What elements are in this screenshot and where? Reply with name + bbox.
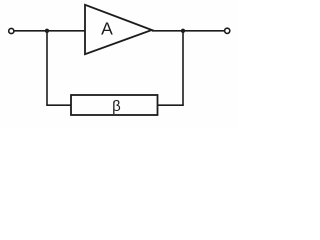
wire left horizontal to beta block — [46, 104, 71, 106]
wire left vertical feedback — [46, 31, 48, 105]
svg-text:A: A — [101, 19, 113, 39]
node junction left — [45, 29, 49, 33]
feedback block beta — [71, 95, 158, 115]
wire right horizontal to beta block — [158, 104, 184, 106]
output terminal — [225, 28, 230, 33]
input terminal — [9, 28, 14, 33]
wire input to amplifier — [15, 30, 86, 32]
svg-text:β: β — [112, 98, 121, 115]
wire amplifier to output — [152, 30, 225, 32]
wire right vertical feedback — [182, 31, 184, 105]
op-amp A triangle — [85, 5, 152, 54]
node junction right — [181, 29, 185, 33]
